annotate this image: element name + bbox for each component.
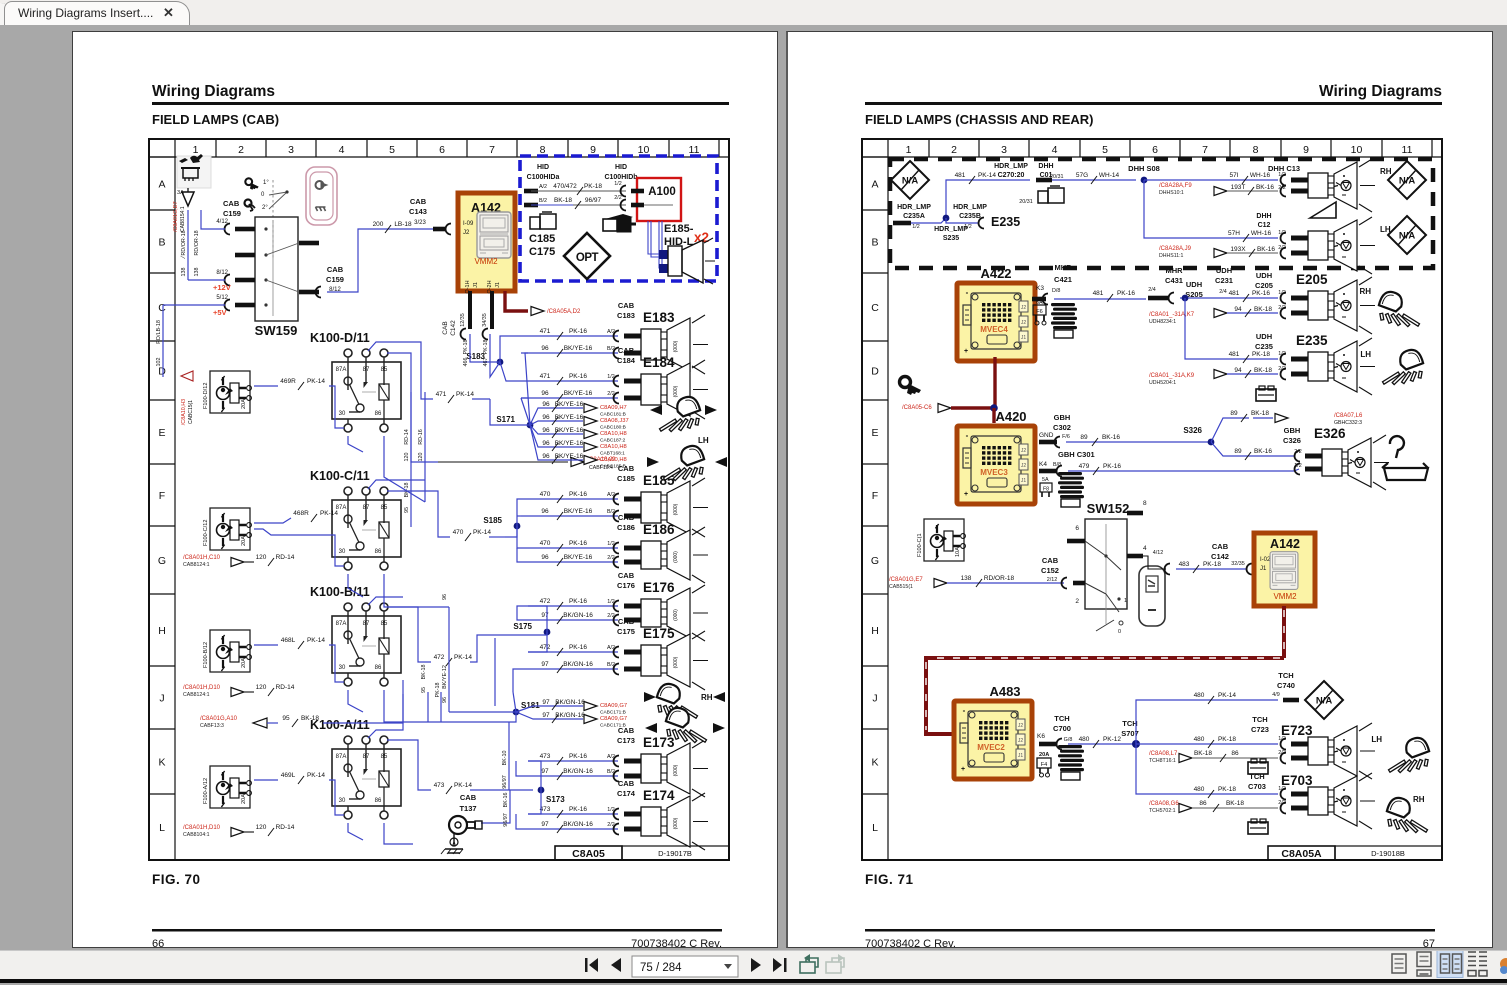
svg-text:FIELD LAMPS (CAB): FIELD LAMPS (CAB) — [152, 112, 279, 127]
svg-text:-: - — [966, 431, 969, 440]
fuse F100-C(1 — [924, 519, 964, 561]
svg-text:A420: A420 — [995, 409, 1026, 424]
ground CAB T137 — [481, 790, 510, 823]
svg-text:E176: E176 — [643, 580, 675, 595]
svg-text:CABC15(1: CABC15(1 — [188, 400, 194, 424]
svg-text:N/A: N/A — [1399, 176, 1416, 187]
svg-text:480: 480 — [1194, 786, 1205, 793]
svg-text:C235: C235 — [1255, 342, 1273, 351]
svg-text:86: 86 — [375, 798, 382, 804]
svg-text:RD/OR-18: RD/OR-18 — [181, 230, 187, 255]
svg-text:A: A — [158, 179, 165, 191]
wire 200 LB-18 to A142 — [327, 229, 441, 292]
SW159 internal contacts — [266, 243, 299, 255]
wire 481 PK-18 to E235 — [1185, 298, 1278, 359]
svg-text:(000): (000) — [673, 764, 679, 776]
svg-text:CAB: CAB — [618, 346, 635, 355]
svg-text:H: H — [871, 625, 879, 637]
rocker icon — [1139, 566, 1165, 626]
wire 473|PK-16 — [528, 760, 618, 762]
svg-text:C185: C185 — [529, 233, 555, 245]
svg-text:CAB515(1: CAB515(1 — [889, 584, 913, 590]
wire 96/97 BK-10 vertical — [508, 722, 510, 790]
svg-text:K: K — [871, 757, 878, 769]
svg-text:E175: E175 — [643, 626, 675, 641]
svg-text:PK-12: PK-12 — [1103, 736, 1121, 743]
diagram border frame — [862, 139, 1442, 860]
svg-text:CABC187:2: CABC187:2 — [600, 438, 626, 444]
svg-text:BK-18: BK-18 — [421, 665, 427, 680]
svg-text:C12: C12 — [1258, 222, 1271, 229]
svg-text:TCH5702:1: TCH5702:1 — [1149, 808, 1176, 814]
svg-text:85: 85 — [381, 754, 388, 760]
svg-text:1: 1 — [1124, 598, 1127, 604]
svg-text:6: 6 — [439, 144, 445, 156]
svg-text:PK-14: PK-14 — [307, 772, 325, 779]
page footer — [152, 929, 722, 932]
svg-text:K100-C/11: K100-C/11 — [310, 469, 370, 483]
svg-text:/C8A08,L7: /C8A08,L7 — [1149, 751, 1178, 757]
svg-text:/C8A28A,J9: /C8A28A,J9 — [1159, 246, 1192, 252]
svg-text:A100: A100 — [648, 186, 676, 198]
wire 57H WH-16 to DHH C12 — [1144, 180, 1278, 238]
wire 481 PK-16 — [1054, 298, 1146, 300]
svg-text:BK-18: BK-18 — [1251, 410, 1269, 417]
svg-text:10: 10 — [1351, 144, 1363, 156]
svg-text:85: 85 — [381, 367, 388, 373]
svg-text:E: E — [871, 427, 878, 439]
svg-text:PK-18: PK-18 — [463, 340, 469, 355]
svg-text:UDH: UDH — [1186, 280, 1202, 289]
svg-text:96: 96 — [542, 401, 550, 408]
wire 472|PK-16 — [528, 651, 618, 653]
svg-text:PK-16: PK-16 — [569, 328, 587, 335]
svg-text:PK-14: PK-14 — [307, 378, 325, 385]
svg-text:N/A: N/A — [1399, 231, 1416, 242]
svg-text:96: 96 — [442, 697, 448, 703]
connector glyph — [605, 214, 633, 222]
svg-text:480: 480 — [1194, 736, 1205, 743]
svg-text:PK-14: PK-14 — [1218, 692, 1236, 699]
svg-text:E205: E205 — [1296, 272, 1328, 287]
svg-text:CAB: CAB — [442, 321, 449, 334]
svg-text:DHH: DHH — [1256, 213, 1271, 220]
svg-text:E174: E174 — [643, 788, 675, 803]
svg-text:K4: K4 — [1039, 461, 1047, 468]
svg-text:138: 138 — [961, 575, 972, 582]
svg-text:10A: 10A — [955, 547, 961, 557]
svg-text:J1: J1 — [1021, 478, 1027, 484]
svg-text:4/12: 4/12 — [216, 219, 228, 225]
svg-text:RD-14: RD-14 — [404, 429, 410, 445]
svg-text:87A: 87A — [336, 621, 347, 627]
svg-text:BK-16: BK-16 — [1254, 448, 1272, 455]
svg-text:B: B — [871, 237, 878, 249]
svg-text:BK/YE-16: BK/YE-16 — [555, 427, 584, 434]
svg-text:BK-18: BK-18 — [1226, 800, 1244, 807]
svg-text:3: 3 — [288, 144, 294, 156]
first page button — [585, 958, 588, 972]
svg-text:8/12: 8/12 — [216, 270, 228, 276]
svg-text:BK/YE-12: BK/YE-12 — [442, 665, 448, 689]
svg-text:C740: C740 — [1277, 681, 1295, 690]
svg-text:J1: J1 — [495, 282, 501, 288]
svg-text:4/9: 4/9 — [1272, 692, 1280, 698]
two page mode icon (active) — [1437, 951, 1463, 978]
svg-text:86: 86 — [375, 665, 382, 671]
left feed wires — [188, 279, 225, 281]
svg-text:CAB: CAB — [618, 617, 635, 626]
svg-text:LH: LH — [1360, 350, 1371, 359]
fuse F100-B/12 — [210, 630, 250, 672]
svg-text:BK/YE-16: BK/YE-16 — [555, 401, 584, 408]
svg-text:E173: E173 — [643, 735, 675, 750]
wire 470|PK-16 — [528, 498, 618, 500]
svg-text:C159: C159 — [223, 209, 241, 218]
svg-text:C176: C176 — [617, 581, 635, 590]
svg-text:(000): (000) — [673, 551, 679, 563]
svg-text:A: A — [871, 179, 878, 191]
svg-text:BK/GN-16: BK/GN-16 — [555, 712, 585, 719]
svg-text:94: 94 — [1234, 367, 1242, 374]
svg-text:C8A09,H7: C8A09,H7 — [600, 405, 627, 411]
svg-text:87: 87 — [363, 621, 370, 627]
svg-text:PK-14: PK-14 — [454, 782, 472, 789]
wire 97|BK/GN-16 — [521, 775, 618, 777]
svg-text:C142: C142 — [1211, 552, 1229, 561]
svg-text:95: 95 — [404, 507, 410, 513]
next page button — [751, 958, 761, 972]
svg-text:470/472: 470/472 — [553, 183, 577, 190]
svg-text:F: F — [159, 490, 165, 502]
switch SW159 — [255, 217, 298, 321]
svg-text:32/35: 32/35 — [1231, 561, 1245, 567]
bottom toolbar — [0, 950, 1507, 980]
svg-text:C8A05A: C8A05A — [1281, 848, 1322, 860]
wire 97|BK/GN-16 — [521, 668, 618, 670]
svg-text:RD-14: RD-14 — [276, 684, 295, 691]
svg-text:/C8A01_-31A,K7: /C8A01_-31A,K7 — [1149, 312, 1195, 318]
svg-text:J2: J2 — [1018, 738, 1024, 744]
svg-text:5/12: 5/12 — [216, 295, 228, 301]
svg-text:4: 4 — [1052, 144, 1058, 156]
svg-text:D/8: D/8 — [1052, 288, 1060, 294]
wire 96|BK/YE-16 — [521, 561, 618, 563]
svg-text:K100-D/11: K100-D/11 — [310, 331, 370, 345]
svg-text:VMM2: VMM2 — [1273, 592, 1297, 601]
svg-text:CABT168:1: CABT168:1 — [600, 451, 625, 457]
svg-text:C8A05: C8A05 — [572, 848, 605, 860]
svg-text:C184: C184 — [617, 356, 636, 365]
junction S185 — [514, 523, 521, 530]
wire 96 BK/YE fan 3 — [530, 425, 583, 434]
svg-text:MHR: MHR — [1054, 263, 1072, 272]
svg-text:RD/LB-18: RD/LB-18 — [156, 320, 162, 344]
svg-text:BK/GN-16: BK/GN-16 — [563, 612, 593, 619]
svg-text:193X: 193X — [1230, 246, 1246, 253]
svg-text:CAB: CAB — [618, 571, 635, 580]
svg-text:483: 483 — [1179, 561, 1190, 568]
svg-text:120: 120 — [256, 554, 267, 561]
svg-text:/C8A01H,D10: /C8A01H,D10 — [183, 825, 221, 831]
svg-text:5A: 5A — [1042, 477, 1049, 483]
svg-text:BK-16: BK-16 — [1257, 246, 1275, 253]
svg-text:7: 7 — [1202, 144, 1208, 156]
svg-text:E326: E326 — [1314, 426, 1346, 441]
continuous mode icon — [1417, 952, 1431, 967]
svg-text:/C8A08,G6: /C8A08,G6 — [1149, 801, 1179, 807]
svg-text:C205: C205 — [1255, 281, 1273, 290]
junction S171 — [527, 422, 534, 429]
svg-text:E184: E184 — [643, 355, 675, 370]
svg-text:A422: A422 — [980, 266, 1011, 281]
svg-text:(000): (000) — [673, 609, 679, 621]
key icon — [900, 377, 922, 396]
svg-text:/C8A01H,C10: /C8A01H,C10 — [183, 555, 221, 561]
SW152 contacts — [1085, 541, 1106, 556]
svg-text:S175: S175 — [513, 622, 532, 631]
svg-text:11: 11 — [1402, 144, 1413, 156]
svg-text:472: 472 — [540, 598, 551, 605]
svg-text:20A: 20A — [241, 658, 247, 668]
svg-text:97: 97 — [542, 699, 550, 706]
svg-text:CABC171:B: CABC171:B — [600, 710, 626, 716]
svg-text:BK-18: BK-18 — [1194, 750, 1212, 757]
svg-text:WH-16: WH-16 — [1250, 172, 1271, 179]
svg-text:BK/GN-16: BK/GN-16 — [563, 821, 593, 828]
svg-text:BK-18: BK-18 — [1254, 306, 1272, 313]
svg-text:N/A: N/A — [902, 176, 919, 187]
svg-text:1: 1 — [193, 144, 199, 156]
svg-text:(000): (000) — [673, 385, 679, 397]
svg-text:6: 6 — [1152, 144, 1158, 156]
next view icon (disabled) — [826, 962, 841, 973]
svg-text:PK-16: PK-16 — [569, 753, 587, 760]
svg-text:LB-18: LB-18 — [394, 221, 412, 228]
svg-text:C185: C185 — [617, 474, 635, 483]
svg-text:96: 96 — [542, 427, 550, 434]
svg-text:E235: E235 — [991, 215, 1020, 229]
svg-text:89: 89 — [1080, 434, 1088, 441]
svg-text:GND: GND — [1039, 432, 1054, 439]
svg-text:MVEC2: MVEC2 — [977, 743, 1005, 752]
svg-text:/C8A01H,D10: /C8A01H,D10 — [183, 685, 221, 691]
svg-text:FIG. 70: FIG. 70 — [152, 872, 201, 887]
svg-text:D-19017B: D-19017B — [658, 849, 692, 858]
svg-text:BK-18: BK-18 — [554, 197, 572, 204]
svg-text:87: 87 — [363, 754, 370, 760]
svg-text:A483: A483 — [989, 684, 1020, 699]
svg-text:C302: C302 — [1053, 423, 1071, 432]
svg-text:D-19018B: D-19018B — [1371, 849, 1405, 858]
svg-text:CAB8124:1: CAB8124:1 — [183, 562, 210, 568]
svg-text:C8A10,H8: C8A10,H8 — [600, 431, 627, 437]
svg-text:1/2: 1/2 — [614, 181, 622, 187]
relay A wiring — [368, 694, 403, 738]
svg-text:PK-16: PK-16 — [1252, 290, 1270, 297]
junction S175 — [544, 629, 551, 636]
svg-text:E: E — [158, 427, 165, 439]
left page: FIELD LAMPS (CAB) — [72, 31, 778, 948]
fuse F100-A/12 — [210, 766, 250, 808]
svg-text:GBH C301: GBH C301 — [1058, 450, 1095, 459]
svg-text:F: F — [872, 490, 878, 502]
svg-text:1/2: 1/2 — [964, 224, 972, 230]
svg-text:C235B: C235B — [959, 213, 981, 220]
wire 89 BK-16 — [1066, 441, 1211, 443]
svg-text:CABF13:3: CABF13:3 — [200, 723, 224, 729]
svg-text:DHH C13: DHH C13 — [1268, 164, 1300, 173]
svg-text:C100HIDa: C100HIDa — [527, 174, 560, 181]
svg-text:86: 86 — [1199, 800, 1207, 807]
wire 97 BK/GN fan 1 — [516, 706, 583, 712]
svg-text:96: 96 — [542, 440, 550, 447]
svg-text:1°: 1° — [263, 180, 269, 186]
svg-text:VMM2: VMM2 — [474, 257, 498, 266]
svg-text:F8: F8 — [1043, 487, 1049, 493]
svg-text:LH: LH — [1371, 735, 1382, 744]
svg-text:CAB: CAB — [1212, 542, 1229, 551]
svg-text:E185-: E185- — [664, 223, 694, 235]
svg-text:20A: 20A — [1039, 752, 1049, 758]
svg-text:PK-16: PK-16 — [569, 540, 587, 547]
svg-text:C186: C186 — [617, 523, 635, 532]
svg-text:C142: C142 — [450, 320, 457, 336]
svg-text:J1: J1 — [473, 282, 479, 288]
svg-text:2: 2 — [1075, 598, 1079, 605]
svg-text:C235A: C235A — [903, 213, 925, 220]
svg-text:CABC171:B: CABC171:B — [600, 723, 626, 729]
vertical feeds 120 RD-14 — [411, 392, 438, 462]
svg-text:481: 481 — [1229, 290, 1240, 297]
svg-text:96: 96 — [542, 414, 550, 421]
wire 57I WH-16 — [1144, 179, 1278, 181]
svg-text:481: 481 — [1093, 290, 1104, 297]
svg-text:BK/YE-16: BK/YE-16 — [555, 440, 584, 447]
svg-text:96/97: 96/97 — [502, 775, 508, 789]
svg-text:120: 120 — [418, 453, 424, 462]
svg-text:DHH S08: DHH S08 — [1128, 164, 1160, 173]
svg-text:E183: E183 — [643, 310, 675, 325]
svg-text:5: 5 — [1102, 144, 1108, 156]
wire 97|BK/GN-16 — [521, 828, 618, 830]
svg-text:BK/YE-16: BK/YE-16 — [564, 508, 593, 515]
svg-text:96: 96 — [542, 453, 550, 460]
svg-text:120: 120 — [256, 684, 267, 691]
svg-text:C175: C175 — [617, 627, 635, 636]
svg-text:8: 8 — [1143, 500, 1147, 507]
svg-text:CAB: CAB — [460, 793, 477, 802]
selector dashed line — [272, 180, 274, 260]
module A142 (VMM2) right page — [1254, 533, 1315, 606]
dark red harness run — [1282, 606, 1286, 658]
svg-text:BK-16: BK-16 — [1256, 184, 1274, 191]
svg-text:J2: J2 — [1021, 448, 1027, 454]
svg-text:UDH: UDH — [1256, 271, 1272, 280]
svg-text:PK-18: PK-18 — [1252, 351, 1270, 358]
svg-text:481: 481 — [1229, 351, 1240, 358]
svg-text:120: 120 — [404, 453, 410, 462]
svg-text:193T: 193T — [1231, 184, 1246, 191]
title block boxes — [555, 846, 622, 860]
svg-text:470: 470 — [453, 529, 464, 536]
svg-text:K6: K6 — [1037, 733, 1045, 740]
two page continuous icon — [1468, 952, 1487, 961]
svg-text:PK-14: PK-14 — [473, 529, 491, 536]
svg-text:138: 138 — [181, 268, 187, 277]
svg-text:Wiring Diagrams: Wiring Diagrams — [152, 83, 275, 100]
svg-text:C: C — [158, 302, 166, 314]
svg-text:PK-16: PK-16 — [569, 644, 587, 651]
svg-text:0: 0 — [1118, 629, 1121, 635]
svg-text:5: 5 — [389, 144, 395, 156]
fuse F100-C/12 — [210, 508, 250, 550]
svg-text:1: 1 — [906, 144, 912, 156]
wire 96 BK/YE fan 2 — [530, 421, 583, 425]
svg-text:PK-16: PK-16 — [1103, 463, 1121, 470]
svg-text:C: C — [871, 302, 879, 314]
svg-text:C421: C421 — [1054, 275, 1072, 284]
relay D wiring — [368, 342, 433, 399]
svg-text:87A: 87A — [336, 754, 347, 760]
svg-text:(000): (000) — [673, 656, 679, 668]
svg-text:468R: 468R — [293, 510, 309, 517]
svg-text:95: 95 — [282, 715, 290, 722]
svg-text:J2: J2 — [1021, 305, 1027, 311]
svg-text:TCH: TCH — [1054, 714, 1069, 723]
svg-text:DHH: DHH — [1038, 163, 1053, 170]
svg-text:466: 466 — [463, 358, 469, 367]
wire 96|BK/YE-16 — [521, 397, 618, 399]
svg-text:200: 200 — [373, 221, 384, 228]
svg-text:468L: 468L — [281, 637, 296, 644]
svg-text:PK-16: PK-16 — [1117, 290, 1135, 297]
svg-text:WH-16: WH-16 — [1251, 230, 1272, 237]
svg-text:BK/YE-16: BK/YE-16 — [564, 390, 593, 397]
svg-text:/C8A05-C6: /C8A05-C6 — [902, 405, 932, 411]
connector glyph below — [1256, 389, 1276, 401]
svg-text:4/12: 4/12 — [1153, 550, 1164, 556]
svg-text:30: 30 — [339, 665, 346, 671]
svg-text:DHHS11:1: DHHS11:1 — [1159, 253, 1184, 259]
svg-text:BK-16: BK-16 — [503, 793, 509, 808]
svg-text:66: 66 — [152, 938, 164, 947]
svg-text:UDH: UDH — [1256, 332, 1272, 341]
svg-text:G/8: G/8 — [1064, 737, 1073, 743]
svg-text:F100-A/12: F100-A/12 — [203, 778, 209, 804]
viewer tab bar — [0, 0, 1507, 25]
svg-text:C8A10,H8: C8A10,H8 — [600, 444, 627, 450]
svg-text:E235: E235 — [1296, 333, 1328, 348]
svg-text:J: J — [159, 693, 164, 705]
svg-text:I-02: I-02 — [1260, 557, 1271, 563]
svg-text:470: 470 — [540, 540, 551, 547]
svg-text:97: 97 — [541, 612, 549, 619]
svg-text:C143: C143 — [409, 207, 427, 216]
svg-text:GBH: GBH — [1054, 413, 1071, 422]
OPT diamond — [564, 233, 610, 279]
svg-text:97: 97 — [542, 712, 550, 719]
svg-text:(000): (000) — [673, 340, 679, 352]
svg-text:PK-14: PK-14 — [320, 510, 338, 517]
svg-text:D: D — [871, 366, 879, 378]
svg-text:C700: C700 — [1053, 724, 1071, 733]
svg-text:-: - — [966, 288, 969, 297]
wire 97 BK/GN fan 2 — [516, 712, 583, 719]
svg-text:S171: S171 — [496, 415, 515, 424]
svg-text:97: 97 — [541, 821, 549, 828]
svg-text:S173: S173 — [546, 795, 565, 804]
